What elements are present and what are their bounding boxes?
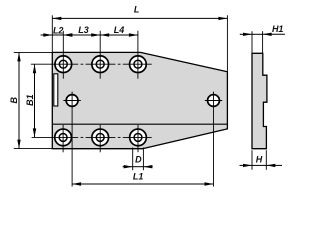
L1 extension line left (from middle hole down) [71,110,73,187]
dimension L1 [72,171,213,184]
svg-text:L3: L3 [78,25,89,35]
vertical crosshairs top holes (extension lines for L2,L3,L4) [63,31,138,79]
counterbored hole bottom 1 [55,129,72,146]
middle hole left [63,92,80,110]
dimension H [240,150,283,170]
dimension H1 [240,24,285,54]
counterbored hole top 2 [92,56,109,73]
centerline bottom row [32,136,152,138]
counterbored hole bottom 2 [92,129,109,146]
svg-text:L: L [134,5,140,15]
dimension L3 [63,25,100,35]
dimension L2 [41,26,75,36]
counterbored hole top 1 [55,56,72,73]
svg-text:L4: L4 [114,25,125,35]
dimension B [9,52,52,148]
middle hole right [205,92,222,110]
counterbored hole bottom 3 [130,129,147,146]
svg-text:B: B [9,97,19,104]
svg-text:D: D [135,155,142,165]
svg-text:L2: L2 [53,26,64,36]
side view profile [252,53,267,148]
step edge line across plate [52,123,227,125]
slot on left edge [54,74,58,106]
vertical crosshairs bottom holes [63,125,138,152]
svg-text:H1: H1 [272,24,284,34]
plate outline (front view) [52,52,227,148]
svg-text:L1: L1 [133,171,144,181]
centerline top row [31,63,152,65]
dimension D [123,148,153,171]
svg-text:B1: B1 [25,94,35,106]
L1 extension line right [213,110,215,187]
dimension L4 [100,25,138,35]
svg-text:H: H [256,155,263,165]
counterbored hole top 3 [130,56,147,73]
dimension L [52,5,227,72]
dimension B1 [25,64,35,137]
